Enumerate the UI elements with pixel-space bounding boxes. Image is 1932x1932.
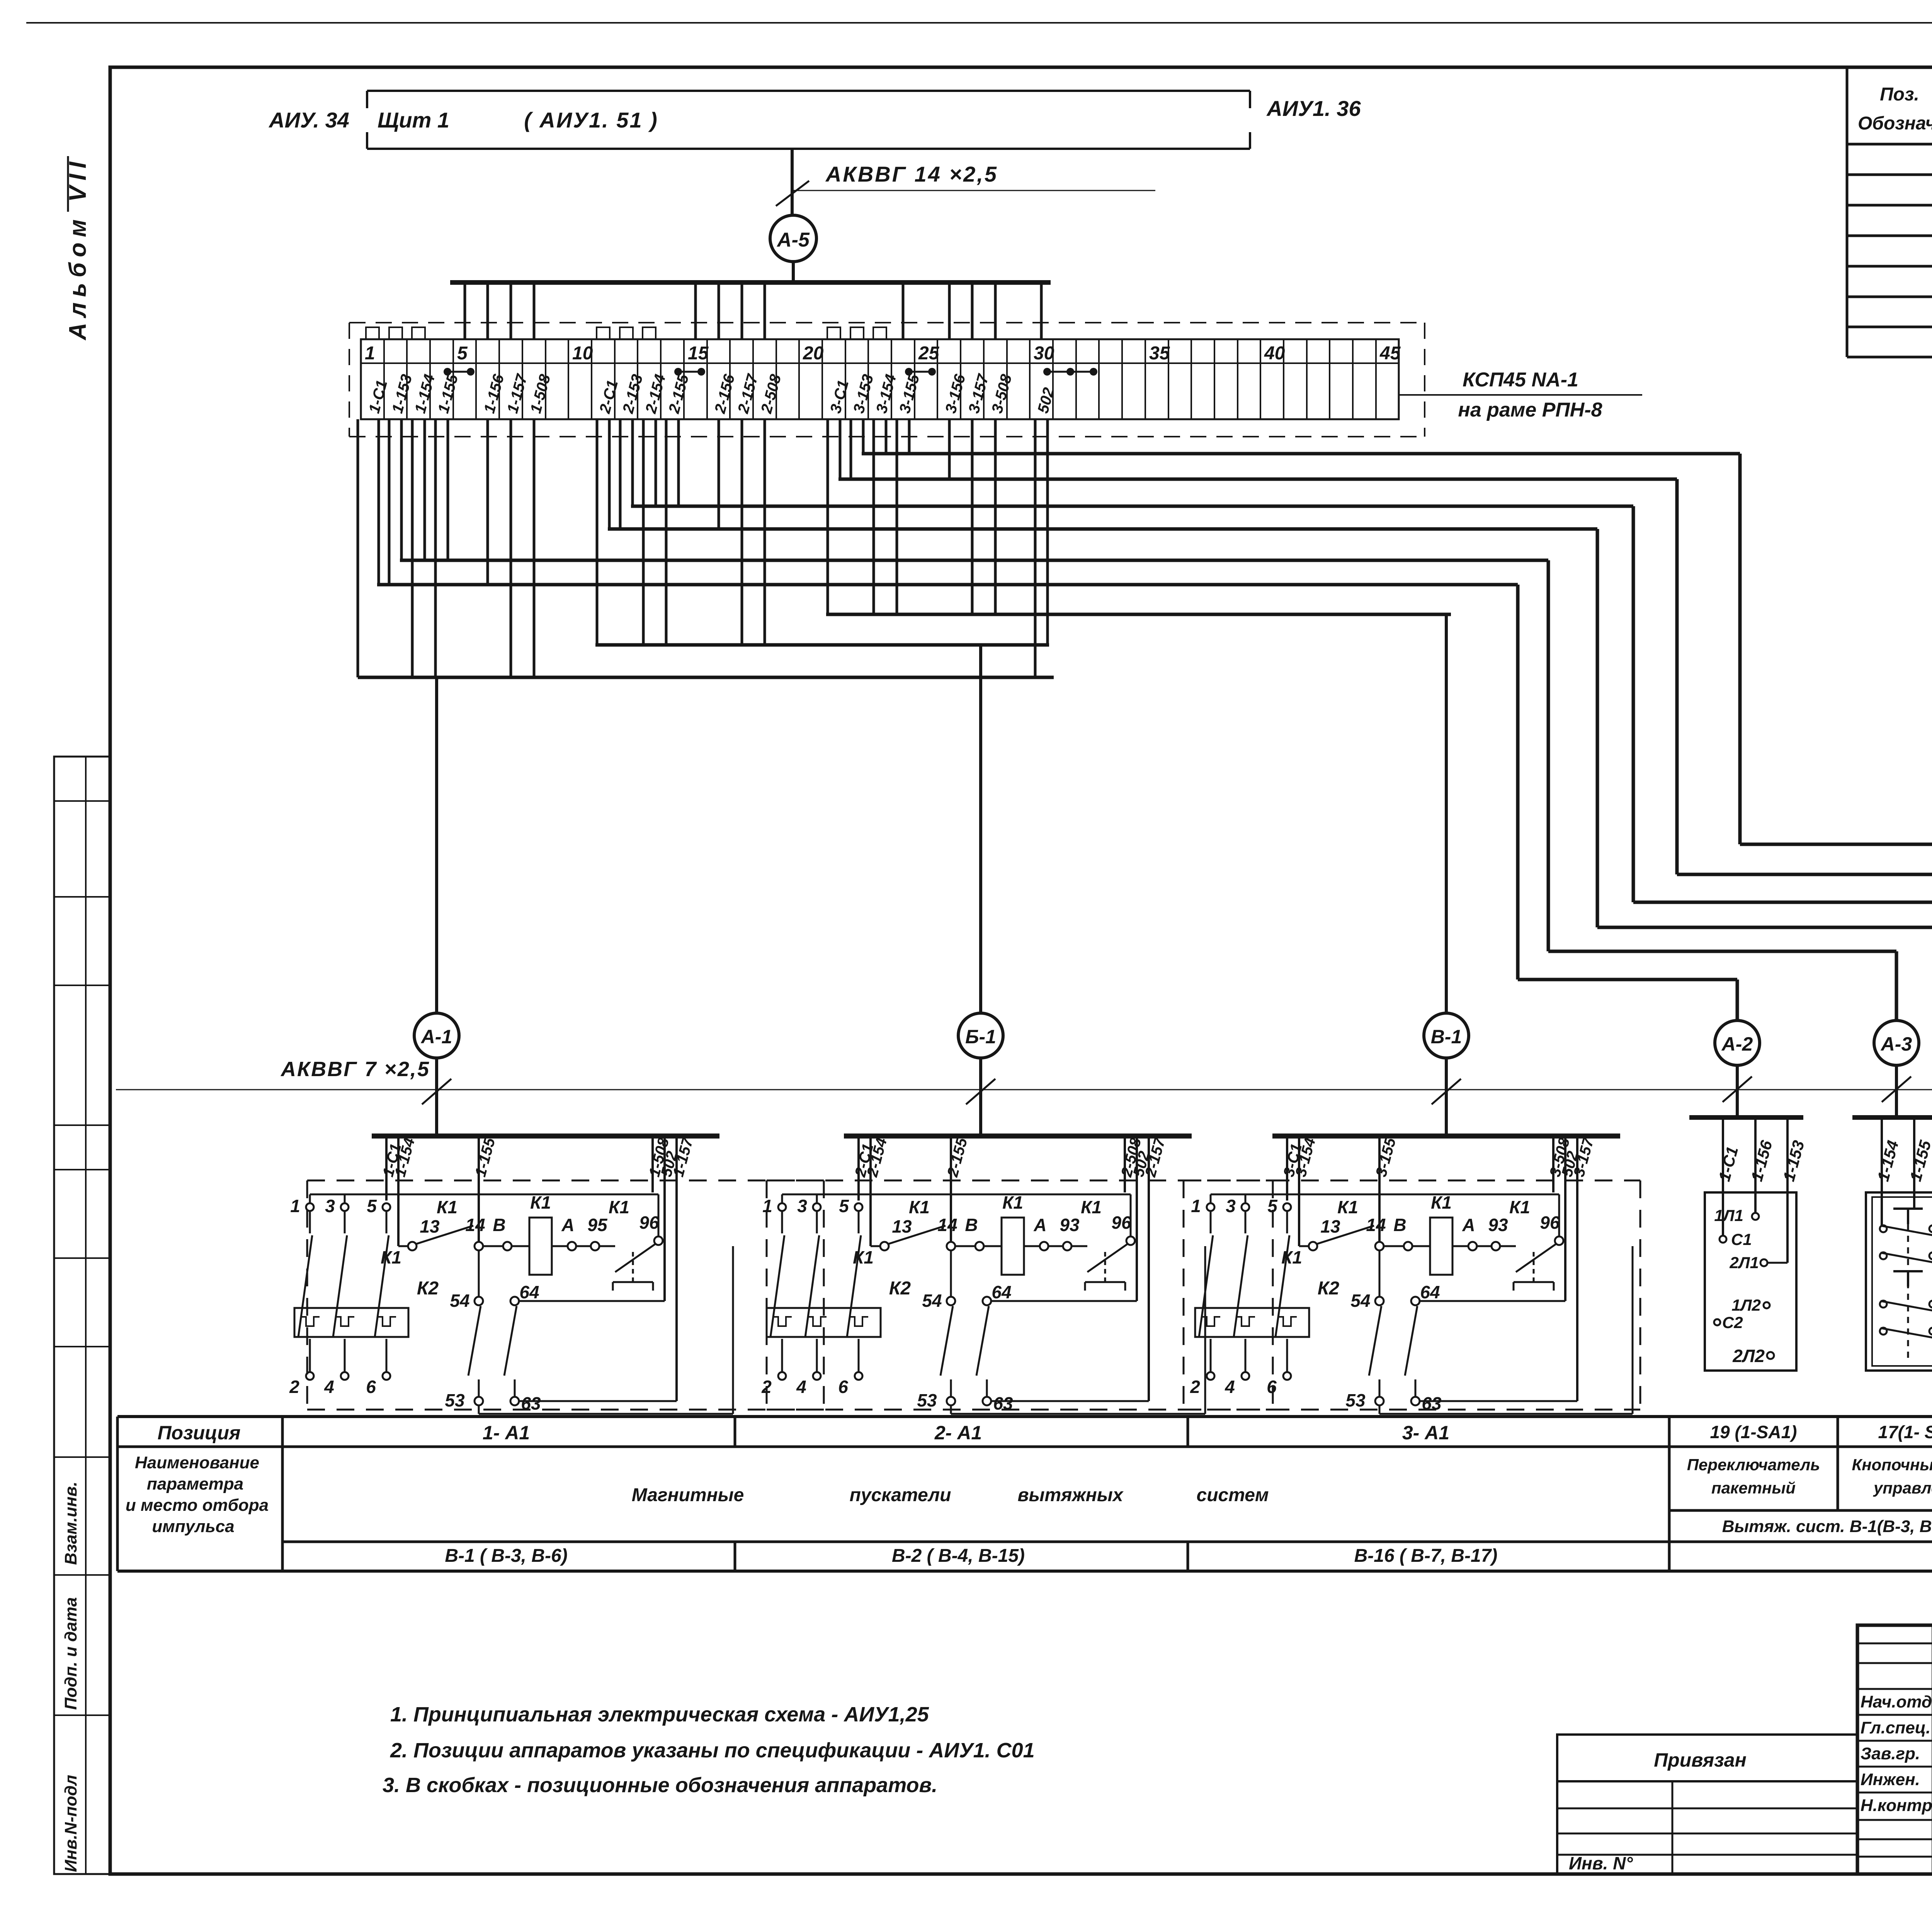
- terminal jumper tab cell 2: [389, 327, 402, 339]
- svg-text:5: 5: [839, 1196, 849, 1216]
- wire 14 to coil of 3-А1: [1384, 1245, 1404, 1247]
- cable route Б-3 lower run: [1633, 901, 1932, 904]
- terminal jumper tab cell 21: [827, 327, 840, 339]
- terminal jumper tab cell 12: [620, 327, 633, 339]
- wire 2-154 into block 2-А1: [869, 1138, 872, 1246]
- sheet top edge line: [26, 22, 1932, 24]
- wire 502 into block 2-А1: [1136, 1138, 1138, 1301]
- internal top wire 3-А1: [1211, 1194, 1559, 1196]
- button stem dashed 1-SB1: [1907, 1224, 1909, 1360]
- wire drop x=1382: [533, 419, 536, 677]
- wire 14 to coil of 1-А1: [483, 1245, 503, 1247]
- svg-text:63: 63: [1422, 1393, 1442, 1413]
- terminal jumper tab cell 22: [850, 327, 864, 339]
- wire: gather to circle А-1: [435, 677, 438, 1013]
- wire 63 to 157 of 1-А1: [519, 1400, 677, 1402]
- svg-text:К2: К2: [417, 1278, 439, 1299]
- svg-text:Инжен.: Инжен.: [1861, 1770, 1920, 1789]
- cable route А-2 lower run: [1518, 978, 1737, 981]
- wire: bus to terminal x=2457: [948, 282, 951, 339]
- svg-text:19 (1-SА1): 19 (1-SА1): [1710, 1422, 1797, 1442]
- svg-text:на раме РПН-8: на раме РПН-8: [1458, 399, 1602, 421]
- svg-text:1. Принципиальная электрич: 1. Принципиальная электрическая схема - …: [390, 1703, 929, 1726]
- wire drop x=2202: [850, 419, 852, 479]
- wire drop x=1159: [447, 419, 449, 560]
- svg-text:Позиция: Позиция: [158, 1422, 241, 1444]
- wire: bus to terminal x=1382: [533, 282, 536, 339]
- svg-text:5: 5: [367, 1196, 377, 1216]
- wire 2-155 into block 2-А1: [950, 1138, 952, 1242]
- internal top wire 1-А1: [310, 1194, 658, 1196]
- bottom wire of 1-А1: [478, 1405, 480, 1414]
- svg-text:53: 53: [445, 1390, 465, 1410]
- cable circle А-3: [1874, 1020, 1919, 1065]
- wire 1-157 into block 1-А1: [675, 1138, 678, 1401]
- cable route А-3 drop to circle: [1895, 951, 1898, 1020]
- svg-text:45: 45: [1379, 343, 1401, 364]
- wire drop x=2353: [908, 419, 911, 454]
- wire 1-155 into block 1-А1: [478, 1138, 480, 1242]
- svg-text:Привязан: Привязан: [1654, 1749, 1747, 1771]
- wire 3-508 into block 3-А1: [1552, 1138, 1554, 1192]
- wire drop x=2679: [1034, 419, 1037, 677]
- svg-text:А: А: [561, 1215, 574, 1235]
- main contact pole 3 of 3-А1: [1242, 1203, 1249, 1211]
- svg-text:30: 30: [1034, 343, 1054, 364]
- svg-text:Кнопочный пост: Кнопочный пост: [1852, 1456, 1932, 1474]
- svg-text:Гл.спец.: Гл.спец.: [1861, 1718, 1930, 1737]
- wire: bus to terminal x=1979: [764, 282, 766, 339]
- wire: circle А-3 to block bar: [1895, 1065, 1898, 1117]
- aux contact 13-14 of 1-А1: [398, 1245, 408, 1247]
- terminal jumper tab cell 1: [366, 327, 379, 339]
- wire 502 into block 1-А1: [663, 1138, 666, 1301]
- svg-text:К1: К1: [1002, 1192, 1023, 1213]
- svg-text:5: 5: [1267, 1196, 1278, 1216]
- wire: bus to terminal x=1860: [718, 282, 720, 339]
- wire drop x=1637: [631, 419, 634, 506]
- svg-text:В: В: [493, 1215, 505, 1235]
- starter block 3-А1 bar: [1272, 1134, 1620, 1139]
- svg-text:Магнитные: Магнитные: [632, 1485, 744, 1505]
- svg-text:А-1: А-1: [420, 1026, 452, 1048]
- svg-text:Н.контр.: Н.контр.: [1861, 1796, 1932, 1815]
- wire: gather to circle В-1: [1445, 614, 1448, 1013]
- wire drop x=1697: [655, 419, 657, 506]
- svg-text:95: 95: [587, 1215, 608, 1235]
- packet switch block 1-SA1 box: [1705, 1192, 1796, 1371]
- wire 2-С1 into block 2-А1: [857, 1138, 860, 1201]
- main contact pole 3 of 2-А1: [813, 1203, 821, 1211]
- wire: circle А-1 to block bar: [435, 1058, 438, 1136]
- bus bar: [450, 280, 1051, 285]
- svg-text:К1: К1: [381, 1247, 401, 1267]
- svg-text:3: 3: [1226, 1196, 1236, 1216]
- wire drop x=1067: [411, 419, 414, 677]
- terminal jumper tab cell 23: [873, 327, 886, 339]
- svg-text:С1: С1: [1731, 1230, 1752, 1248]
- push-button block 1-SB1 box: [1866, 1192, 1932, 1371]
- wire drop x=1039: [400, 419, 403, 560]
- wire drop x=1545: [596, 419, 599, 645]
- bottom wire of 2-А1: [950, 1405, 952, 1414]
- wire: bus to terminal x=2695: [1040, 282, 1043, 339]
- svg-text:Подп. и дата: Подп. и дата: [61, 1597, 80, 1710]
- wire: bus to terminal x=1920: [741, 282, 743, 339]
- svg-text:3- А1: 3- А1: [1402, 1422, 1449, 1444]
- push-button block 1-SB1 bar: [1852, 1115, 1932, 1120]
- svg-text:АКВВГ 14 ×2,5: АКВВГ 14 ×2,5: [825, 162, 998, 186]
- svg-text:20: 20: [803, 343, 824, 364]
- cable line А-1 gather: [358, 676, 1054, 679]
- wire 1-С1 into block 1-А1: [385, 1138, 388, 1201]
- svg-text:96: 96: [1540, 1213, 1560, 1233]
- svg-text:10: 10: [572, 343, 593, 364]
- aux contacts 53-54 63-64 of 3-А1: [1379, 1250, 1381, 1297]
- privyazan box: [1557, 1735, 1857, 1874]
- svg-text:Поз.: Поз.: [1880, 84, 1919, 105]
- svg-text:К1: К1: [1337, 1197, 1358, 1217]
- svg-text:Щит 1: Щит 1: [378, 108, 449, 132]
- cable route А-3 vertical: [1547, 560, 1550, 951]
- button contact 2 of 1-SB1: [1893, 1270, 1923, 1272]
- svg-text:К1: К1: [909, 1197, 930, 1217]
- aux contacts 53-54 63-64 of 2-А1: [950, 1250, 952, 1297]
- thermal break contact 96 of 1-А1: [599, 1245, 615, 1247]
- svg-text:2. Позиции аппаратов указ: 2. Позиции аппаратов указаны по специфик…: [390, 1739, 1035, 1762]
- svg-text:Инв.N-подл: Инв.N-подл: [61, 1775, 80, 1872]
- cable circle А-2: [1715, 1020, 1760, 1065]
- svg-text:35: 35: [1149, 343, 1170, 364]
- wire 63 to 157 of 2-А1: [991, 1400, 1149, 1402]
- svg-text:К2: К2: [1318, 1278, 1340, 1299]
- wire 14 to coil of 2-А1: [955, 1245, 975, 1247]
- svg-text:54: 54: [922, 1291, 942, 1311]
- wire: gather to circle Б-1: [979, 645, 982, 1013]
- wire drop x=2234: [862, 419, 865, 454]
- svg-text:4: 4: [324, 1377, 334, 1397]
- main contact pole 1 of 2-А1: [778, 1203, 786, 1211]
- svg-text:6: 6: [838, 1377, 848, 1397]
- svg-text:64: 64: [519, 1282, 539, 1302]
- wire drop x=2142: [827, 419, 829, 614]
- button contact 1 of 1-SB1: [1893, 1207, 1923, 1210]
- wire drop x=1007: [388, 419, 391, 585]
- terminal jumper tab cell 3: [412, 327, 425, 339]
- wire drop x=2261: [872, 419, 875, 614]
- svg-text:К1: К1: [1081, 1197, 1102, 1217]
- wire drop x=2457: [948, 419, 951, 479]
- cable route В-2 lower run: [1677, 873, 1932, 876]
- wire drop x=1979: [764, 419, 766, 645]
- svg-text:4: 4: [796, 1377, 806, 1397]
- svg-text:АКВВГ 7 ×2,5: АКВВГ 7 ×2,5: [280, 1058, 430, 1081]
- cable slash В-1: [1432, 1079, 1461, 1104]
- svg-text:54: 54: [450, 1291, 469, 1311]
- svg-text:1: 1: [762, 1196, 772, 1216]
- cable line А-3 route: [400, 559, 1548, 562]
- wire drop x=1322: [510, 419, 512, 677]
- cable line В-2 route: [838, 478, 1677, 481]
- terminal strip body: [361, 339, 1399, 419]
- wire drop x=1665: [642, 419, 645, 645]
- thermal relay К2 of 2-А1: [767, 1308, 881, 1337]
- svg-text:Б-1: Б-1: [965, 1026, 996, 1048]
- wire drop x=1920: [741, 419, 743, 645]
- wire drop x=1099: [423, 419, 426, 560]
- svg-text:63: 63: [993, 1393, 1013, 1413]
- wire 2-157 into block 2-А1: [1148, 1138, 1150, 1401]
- svg-text:С2: С2: [1722, 1313, 1743, 1332]
- cable circle В-1: [1424, 1013, 1469, 1058]
- main contact pole 5 of 1-А1: [383, 1203, 390, 1211]
- starter block 1-А1 bar: [372, 1134, 719, 1139]
- main contact pole 1 of 1-А1: [306, 1203, 314, 1211]
- svg-text:6: 6: [366, 1377, 376, 1397]
- cable route А-2 vertical: [1516, 585, 1520, 980]
- jumper bridge 502: [1043, 368, 1051, 376]
- wire drop x=1605: [619, 419, 622, 529]
- wire: circle В-1 to block bar: [1445, 1058, 1448, 1136]
- svg-text:параметра: параметра: [147, 1475, 243, 1493]
- svg-text:2- А1: 2- А1: [934, 1422, 982, 1444]
- svg-text:2: 2: [761, 1377, 772, 1397]
- starter block 2-А1 bar: [844, 1134, 1192, 1139]
- svg-text:53: 53: [917, 1390, 937, 1410]
- svg-text:1Л1: 1Л1: [1714, 1206, 1743, 1225]
- main contact pole 1 of 3-А1: [1207, 1203, 1214, 1211]
- svg-text:К1: К1: [1281, 1247, 1302, 1267]
- cable slash А-1: [422, 1079, 451, 1104]
- svg-text:В: В: [1393, 1215, 1406, 1235]
- svg-text:2: 2: [289, 1377, 299, 1397]
- wire drop x=1262: [486, 419, 489, 585]
- main contact pole 5 of 3-А1: [1283, 1203, 1291, 1211]
- svg-text:2Л1: 2Л1: [1729, 1253, 1759, 1272]
- cable slash А-2: [1723, 1077, 1752, 1102]
- switch terminals 1-SA1: [1752, 1213, 1759, 1220]
- wire drop x=926: [357, 419, 359, 677]
- svg-text:управления: управления: [1873, 1479, 1932, 1497]
- footer table frame: [117, 1415, 1932, 1418]
- svg-text:А-3: А-3: [1880, 1033, 1912, 1055]
- thermal relay К2 of 3-А1: [1195, 1308, 1309, 1337]
- wire: bus to terminal x=1322: [510, 282, 512, 339]
- svg-text:В-16 ( В-7, В-17): В-16 ( В-7, В-17): [1354, 1546, 1498, 1566]
- starter block 2-А1 dashed enclosure: [767, 1180, 1273, 1182]
- svg-text:1: 1: [1191, 1196, 1201, 1216]
- cable route Б-3 vertical: [1632, 506, 1635, 902]
- wire 1-508 into block 1-А1: [651, 1138, 654, 1192]
- svg-text:13: 13: [420, 1216, 440, 1236]
- svg-text:А-2: А-2: [1721, 1033, 1753, 1055]
- terminal jumper tab cell 11: [597, 327, 610, 339]
- svg-text:3. В скобках - позиционные: 3. В скобках - позиционные обозначения а…: [383, 1774, 937, 1797]
- cable line В-1 gather: [826, 613, 1451, 616]
- wire: bus to terminal x=1800: [694, 282, 697, 339]
- cable line Б-3 route: [631, 505, 1633, 508]
- svg-text:Переключатель: Переключатель: [1687, 1456, 1820, 1474]
- cable slash mark A-5: [776, 181, 809, 206]
- thermal break contact 96 of 3-А1: [1500, 1245, 1516, 1247]
- svg-text:14: 14: [1366, 1215, 1386, 1235]
- wire: circle Б-1 to block bar: [979, 1058, 982, 1136]
- cable route Б-2 lower run: [1597, 926, 1932, 929]
- wire: bus to terminal x=1203: [464, 282, 466, 339]
- wire 3-155 into block 3-А1: [1378, 1138, 1381, 1242]
- wire drop x=1127: [434, 419, 437, 677]
- svg-text:В-2 ( В-4, В-15): В-2 ( В-4, В-15): [892, 1546, 1025, 1566]
- svg-text:Взам.инв.: Взам.инв.: [61, 1481, 80, 1565]
- svg-text:25: 25: [918, 343, 940, 364]
- svg-text:5: 5: [457, 343, 468, 364]
- thermal relay К2 of 1-А1: [294, 1308, 408, 1337]
- svg-text:систем: систем: [1197, 1485, 1269, 1505]
- wire: circle А-2 to block bar: [1736, 1065, 1739, 1117]
- main contact pole 3 of 1-А1: [341, 1203, 349, 1211]
- coil К1 of 1-А1: [529, 1218, 552, 1275]
- svg-text:17(1- SВ1): 17(1- SВ1): [1878, 1422, 1932, 1442]
- coil К1 of 3-А1: [1430, 1218, 1452, 1275]
- cable dimension line: [793, 190, 1155, 191]
- thermal break contact 96 of 2-А1: [1071, 1245, 1087, 1247]
- specification table: [1846, 67, 1849, 357]
- terminal box label КСП45: [1399, 394, 1642, 396]
- svg-text:3: 3: [325, 1196, 335, 1216]
- wire drop x=1860: [718, 419, 720, 529]
- svg-text:В-1: В-1: [1431, 1026, 1462, 1048]
- aux contact 13-14 of 2-А1: [871, 1245, 880, 1247]
- terminal jumper tab cell 13: [643, 327, 656, 339]
- jumper bridge 2-155: [674, 368, 682, 376]
- svg-text:Нач.отд.: Нач.отд.: [1861, 1692, 1932, 1711]
- bottom wire of 3-А1: [1379, 1405, 1381, 1414]
- svg-text:64: 64: [992, 1282, 1011, 1302]
- wire drop x=1577: [608, 419, 611, 529]
- wire drop x=2321: [896, 419, 898, 614]
- cable circle Б-1: [958, 1013, 1003, 1058]
- cable route line АКВВГ: [116, 1089, 1932, 1090]
- aux contacts 53-54 63-64 of 1-А1: [478, 1250, 480, 1297]
- svg-text:13: 13: [1320, 1216, 1340, 1236]
- wire 64 to 502 of 3-А1: [1420, 1300, 1565, 1302]
- cable slash А-3: [1882, 1077, 1911, 1102]
- svg-text:К1: К1: [853, 1247, 874, 1267]
- svg-text:К1: К1: [1431, 1192, 1452, 1213]
- cable route В-2 vertical: [1675, 479, 1679, 874]
- aux contact 13-14 of 3-А1: [1299, 1245, 1309, 1247]
- left margin stamp strip: [54, 757, 110, 1874]
- wire: bus to terminal x=2516: [971, 282, 974, 339]
- svg-text:( АИУ1. 51 ): ( АИУ1. 51 ): [524, 108, 658, 132]
- svg-text:1: 1: [365, 343, 375, 364]
- svg-text:А: А: [1033, 1215, 1046, 1235]
- wire 3-157 into block 3-А1: [1576, 1138, 1578, 1401]
- terminal box dashed outline: [349, 322, 1425, 323]
- svg-text:93: 93: [1060, 1215, 1080, 1235]
- packet switch block 1-SA1 bar: [1689, 1115, 1803, 1120]
- starter block 3-А1 dashed enclosure: [1184, 1180, 1640, 1182]
- wire: bus to terminal x=2576: [994, 282, 997, 339]
- svg-text:К1: К1: [530, 1192, 551, 1213]
- svg-text:14: 14: [937, 1215, 957, 1235]
- cable line Б-2 route: [608, 527, 1597, 531]
- svg-text:6: 6: [1267, 1377, 1277, 1397]
- wire 64 to 502 of 2-А1: [991, 1300, 1137, 1302]
- svg-text:К1: К1: [609, 1197, 629, 1217]
- wire: panel to A-5: [791, 149, 794, 215]
- cable circle A-5: [770, 215, 816, 262]
- svg-text:В: В: [965, 1215, 978, 1235]
- svg-text:пакетный: пакетный: [1711, 1479, 1796, 1497]
- svg-text:2: 2: [1190, 1377, 1200, 1397]
- cable line Б-1 gather: [595, 643, 1049, 647]
- cable route В-3 lower run: [1740, 843, 1932, 846]
- wire 63 to 157 of 3-А1: [1420, 1400, 1577, 1402]
- svg-text:Инв. N°: Инв. N°: [1569, 1853, 1633, 1873]
- cable slash Б-1: [966, 1079, 995, 1104]
- cable route Б-2 vertical: [1596, 529, 1599, 927]
- cable line А-2 route: [377, 583, 1518, 587]
- svg-text:15: 15: [688, 343, 709, 364]
- svg-text:К1: К1: [1509, 1197, 1530, 1217]
- cable circle А-1: [414, 1013, 459, 1058]
- svg-text:Наименование: Наименование: [135, 1453, 259, 1472]
- wire drop x=2174: [839, 419, 842, 479]
- wire: bus to terminal x=2337: [902, 282, 905, 339]
- svg-text:3: 3: [797, 1196, 807, 1216]
- wire drop x=1756: [677, 419, 680, 506]
- wire 3-154 into block 3-А1: [1298, 1138, 1300, 1246]
- wire 64 to 502 of 1-А1: [519, 1300, 665, 1302]
- wire: A-5 to bus: [792, 262, 795, 283]
- svg-text:КСП45 NА-1: КСП45 NА-1: [1463, 369, 1578, 391]
- svg-text:К1: К1: [437, 1197, 457, 1217]
- svg-text:96: 96: [639, 1213, 659, 1233]
- wire 1-154 into block 1-А1: [397, 1138, 400, 1246]
- svg-text:2Л2: 2Л2: [1732, 1346, 1765, 1366]
- svg-text:1Л2: 1Л2: [1731, 1296, 1761, 1314]
- svg-text:96: 96: [1111, 1213, 1131, 1233]
- svg-text:Зав.гр.: Зав.гр.: [1861, 1744, 1920, 1763]
- cable route А-3 lower run: [1548, 950, 1896, 953]
- jumper bridge 1-155: [444, 368, 451, 376]
- svg-text:1- А1: 1- А1: [483, 1422, 530, 1444]
- svg-text:13: 13: [892, 1216, 912, 1236]
- svg-text:1: 1: [290, 1196, 300, 1216]
- wire 3-С1 into block 3-А1: [1286, 1138, 1288, 1201]
- panel box Щит 1: [367, 90, 1250, 92]
- wire drop x=2293: [885, 419, 888, 454]
- svg-text:А: А: [1462, 1215, 1475, 1235]
- wire drop x=1724: [665, 419, 668, 645]
- wire 2-508 into block 2-А1: [1124, 1138, 1126, 1192]
- svg-text:63: 63: [521, 1393, 541, 1413]
- wire drop x=2576: [994, 419, 997, 614]
- svg-text:14: 14: [465, 1215, 485, 1235]
- wire drop x=2711: [1046, 419, 1049, 645]
- svg-text:импульса: импульса: [152, 1517, 234, 1536]
- cable route В-3 vertical: [1738, 454, 1742, 844]
- svg-text:АИУ. 34: АИУ. 34: [268, 108, 349, 132]
- cable route А-2 drop to circle: [1736, 980, 1739, 1020]
- title block frame: [1857, 1625, 1932, 1874]
- svg-text:К2: К2: [889, 1278, 911, 1299]
- svg-text:и место отбора: и место отбора: [126, 1496, 269, 1515]
- wire: bus to terminal x=1262: [486, 282, 489, 339]
- jumper bridge 3-155: [905, 368, 913, 376]
- wire drop x=980: [378, 419, 380, 585]
